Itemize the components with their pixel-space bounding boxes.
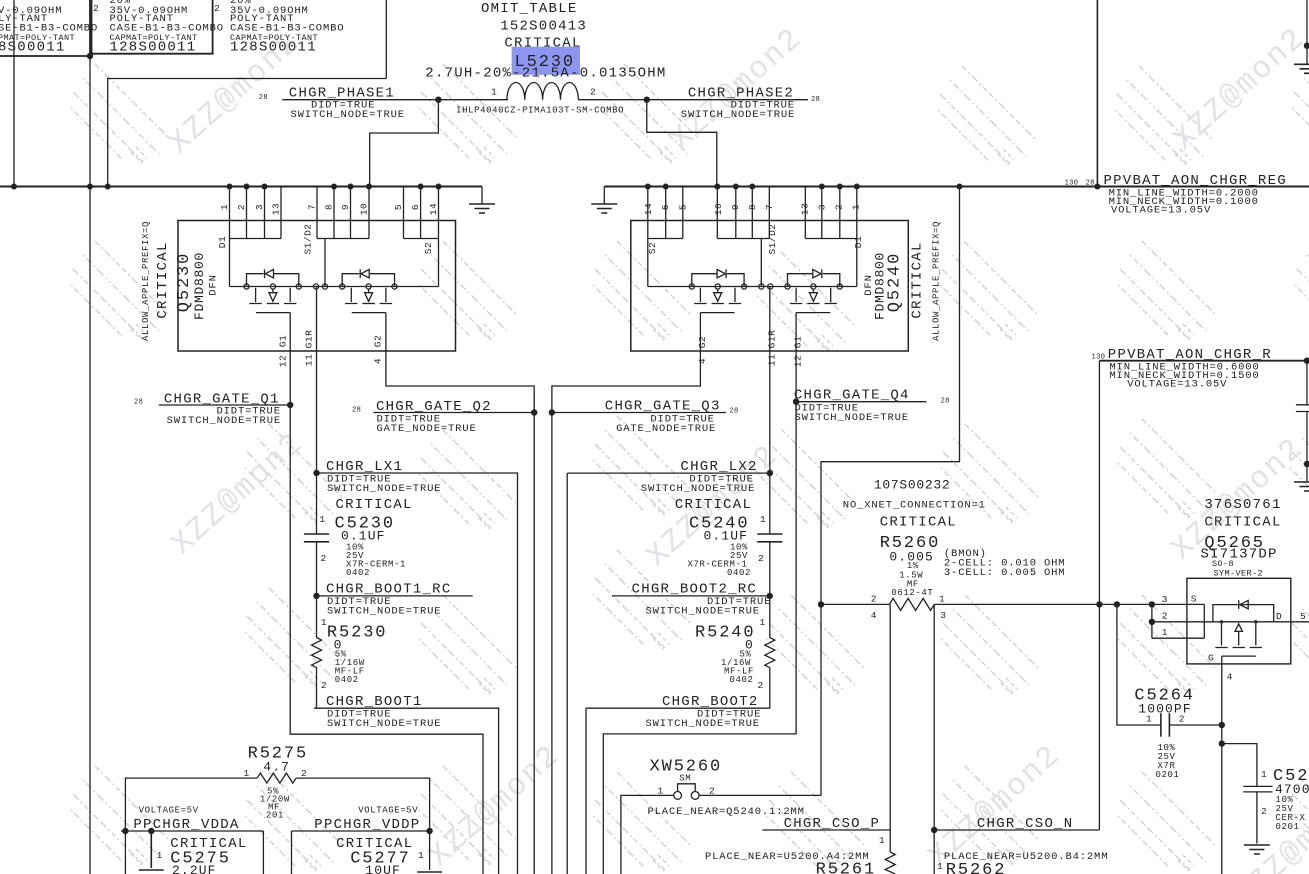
- svg-text:SYM-VER-2: SYM-VER-2: [1214, 569, 1264, 579]
- svg-text:13: 13: [271, 203, 282, 215]
- svg-text:1: 1: [658, 786, 664, 797]
- svg-text:3: 3: [1162, 594, 1168, 605]
- svg-text:8: 8: [747, 204, 758, 210]
- wire R5275 pin2 to PPCHGR_VDDP: [296, 778, 429, 870]
- svg-text:CHGR_BOOT1: CHGR_BOOT1: [326, 694, 423, 710]
- wire Q5265 drain: [1274, 621, 1309, 623]
- svg-text:S2: S2: [423, 242, 434, 254]
- svg-text:CRITICAL: CRITICAL: [675, 497, 752, 513]
- svg-text:1: 1: [1146, 714, 1152, 725]
- svg-text:28: 28: [729, 408, 738, 416]
- svg-text:0.1UF: 0.1UF: [704, 529, 749, 544]
- svg-text:2: 2: [1261, 806, 1267, 817]
- capacitor C5277: [417, 871, 442, 873]
- svg-text:0402: 0402: [335, 675, 359, 685]
- svg-text:28: 28: [352, 407, 361, 415]
- wire CHGR_GATE_Q4: [796, 401, 926, 403]
- wire CHGR_GATE_Q3: [552, 412, 726, 414]
- capacitor table box 3: [385, 0, 387, 79]
- wire PPCHGR_VDDP: [292, 830, 430, 832]
- svg-text:12: 12: [278, 355, 289, 367]
- wire CHGR_BOOT2_RC: [612, 595, 770, 597]
- svg-text:1: 1: [418, 850, 424, 861]
- svg-text:2.7UH-20%-21.5A-0.0135OHM: 2.7UH-20%-21.5A-0.0135OHM: [425, 66, 666, 82]
- inductor L5230: [507, 82, 578, 99]
- svg-text:PPCHGR_VDDA: PPCHGR_VDDA: [133, 817, 239, 833]
- ground G1: [481, 187, 483, 205]
- svg-text:VOLTAGE=13.05V: VOLTAGE=13.05V: [1111, 205, 1211, 217]
- wire CHGR_CSO_P: [762, 829, 890, 831]
- svg-text:7: 7: [307, 204, 318, 210]
- svg-text:0201: 0201: [1156, 770, 1180, 780]
- wire CHGR_PHASE2: [578, 99, 808, 101]
- capacitor C5265: [1222, 744, 1273, 844]
- wire kelvin tap CSO_N: [933, 604, 935, 874]
- wire G1R Q5240: [769, 351, 771, 596]
- wire bus to R5260 feed: [821, 187, 960, 796]
- wire CHGR_CSO_N: [934, 829, 1099, 831]
- wire G1R / CHGR_LX1 node: [316, 351, 318, 596]
- ground bars G2: [591, 204, 617, 213]
- svg-text:G1R: G1R: [304, 330, 315, 349]
- wire G2 Q5240 to CHGR_GATE_Q3: [552, 351, 701, 874]
- wire Q5265 S pins: [1152, 604, 1213, 638]
- svg-text:3: 3: [940, 610, 946, 621]
- svg-text:2: 2: [871, 594, 877, 605]
- svg-text:SWITCH_NODE=TRUE: SWITCH_NODE=TRUE: [646, 606, 760, 618]
- svg-text:GATE_NODE=TRUE: GATE_NODE=TRUE: [377, 423, 477, 435]
- svg-text:2: 2: [236, 204, 247, 210]
- capacitor C5240: [757, 534, 782, 542]
- svg-text:DFN: DFN: [208, 274, 220, 295]
- svg-text:ALLOW_APPLE_PREFIX=Q: ALLOW_APPLE_PREFIX=Q: [932, 221, 942, 341]
- svg-text:8S00011: 8S00011: [0, 40, 66, 56]
- svg-text:1: 1: [157, 850, 163, 861]
- svg-text:0.1UF: 0.1UF: [341, 529, 386, 544]
- svg-text:28: 28: [259, 94, 268, 102]
- svg-text:11: 11: [767, 354, 778, 366]
- svg-text:0612-4T: 0612-4T: [891, 588, 933, 598]
- svg-text:NO_XNET_CONNECTION=1: NO_XNET_CONNECTION=1: [843, 500, 986, 512]
- transistor Q5240: [631, 184, 909, 352]
- wire CHGR_BOOT2: [586, 708, 770, 874]
- svg-text:107S00232: 107S00232: [874, 478, 951, 493]
- svg-text:2: 2: [758, 553, 764, 564]
- svg-text:2: 2: [834, 204, 845, 210]
- wire from box3 bottom to bus: [108, 79, 387, 187]
- ground G2: [603, 187, 605, 205]
- box edge C5275 right: [262, 831, 264, 874]
- wire R5260 out: [934, 603, 1204, 605]
- svg-text:1: 1: [1162, 627, 1168, 638]
- wire G1 Q5240 to CHGR_GATE_Q4: [603, 351, 796, 874]
- svg-text:130: 130: [1065, 179, 1079, 187]
- wire cap pin left: [13, 0, 15, 187]
- svg-text:S1/D2: S1/D2: [767, 223, 778, 254]
- svg-text:12: 12: [793, 355, 804, 367]
- wire PPCHGR_VDDA: [121, 830, 263, 832]
- svg-text:14: 14: [643, 203, 654, 215]
- svg-text:7: 7: [764, 204, 775, 210]
- capacitor C5275: [139, 831, 164, 870]
- svg-text:1: 1: [320, 514, 326, 525]
- highlight L5230: [512, 47, 580, 75]
- svg-text:FDMD8800: FDMD8800: [192, 252, 207, 320]
- svg-text:28: 28: [811, 96, 820, 104]
- svg-text:CRITICAL: CRITICAL: [336, 497, 413, 513]
- svg-text:10: 10: [359, 203, 370, 215]
- svg-text:S2: S2: [647, 242, 658, 254]
- svg-text:D: D: [1276, 611, 1282, 622]
- svg-text:PLACE_NEAR=Q5240.1:2MM: PLACE_NEAR=Q5240.1:2MM: [648, 806, 805, 818]
- svg-text:OMIT_TABLE: OMIT_TABLE: [481, 1, 578, 17]
- box edge C5277 left: [291, 831, 293, 874]
- capacitor C5230: [304, 534, 329, 542]
- Q5240 text: [643, 203, 942, 367]
- svg-text:9: 9: [340, 204, 351, 210]
- svg-text:10: 10: [713, 203, 724, 215]
- svg-text:CHGR_GATE_Q2: CHGR_GATE_Q2: [376, 399, 492, 415]
- svg-text:D1: D1: [853, 236, 864, 248]
- svg-text:1: 1: [244, 768, 250, 779]
- svg-text:0402: 0402: [727, 568, 751, 578]
- resistor R5230: [312, 596, 322, 708]
- junction dots mid section: [11, 43, 1309, 600]
- svg-text:4: 4: [373, 358, 384, 364]
- svg-text:SWITCH_NODE=TRUE: SWITCH_NODE=TRUE: [681, 109, 795, 121]
- svg-text:3: 3: [817, 204, 828, 210]
- svg-text:10UF: 10UF: [365, 863, 401, 874]
- svg-text:2: 2: [93, 3, 99, 14]
- wire CHGR_GATE_Q2: [373, 412, 534, 414]
- ground bars C5265: [1244, 845, 1270, 854]
- resistor R5240: [765, 596, 775, 708]
- wire CHGR_PHASE1: [282, 99, 508, 101]
- capacitor table box 2: [92, 0, 213, 54]
- wire CHGR_BOOT1_RC: [314, 595, 473, 597]
- svg-text:0402: 0402: [730, 675, 754, 685]
- svg-text:CRITICAL: CRITICAL: [155, 241, 171, 318]
- junction dots bottom: [122, 601, 1257, 834]
- svg-text:VOLTAGE=5V: VOLTAGE=5V: [358, 805, 418, 815]
- svg-text:PPCHGR_VDDP: PPCHGR_VDDP: [314, 817, 420, 833]
- capacitor right edge top: [1296, 361, 1309, 482]
- capacitor table box 1: [0, 0, 90, 56]
- svg-text:G1: G1: [278, 335, 289, 347]
- resistor R5260: [889, 598, 934, 610]
- svg-text:14: 14: [428, 203, 439, 215]
- svg-text:S1/D2: S1/D2: [303, 223, 314, 254]
- resistor R5275: [257, 773, 296, 783]
- svg-text:G1R: G1R: [767, 330, 778, 349]
- capacitor C5264: [1161, 713, 1170, 736]
- svg-text:Q5240: Q5240: [886, 252, 905, 313]
- wire CHGR_PHASE1 drop to Q5230: [370, 100, 439, 187]
- svg-text:5: 5: [1300, 611, 1306, 622]
- wire C5264 to gate: [1169, 724, 1221, 726]
- svg-text:CHGR_CSO_P: CHGR_CSO_P: [784, 816, 881, 832]
- svg-text:SWITCH_NODE=TRUE: SWITCH_NODE=TRUE: [167, 415, 281, 427]
- power bus PPVBAT left segment: [0, 186, 482, 188]
- svg-text:1: 1: [491, 87, 497, 98]
- svg-text:4.7: 4.7: [263, 760, 290, 775]
- svg-text:G: G: [1208, 653, 1214, 664]
- svg-text:2: 2: [590, 87, 596, 98]
- svg-text:28: 28: [134, 399, 143, 407]
- svg-text:0402: 0402: [346, 568, 370, 578]
- svg-text:CHGR_GATE_Q3: CHGR_GATE_Q3: [605, 399, 721, 415]
- wire CHGR_LX2: [567, 473, 770, 874]
- svg-text:28: 28: [941, 398, 950, 406]
- svg-text:152S00413: 152S00413: [500, 19, 587, 35]
- svg-text:SWITCH_NODE=TRUE: SWITCH_NODE=TRUE: [327, 606, 441, 618]
- wire CHGR_PHASE2 drop to Q5240: [647, 100, 717, 187]
- wire R5260 sense: [821, 603, 889, 605]
- svg-text:2: 2: [1162, 611, 1168, 622]
- svg-text:SO-8: SO-8: [1212, 559, 1234, 569]
- svg-text:5: 5: [393, 204, 404, 210]
- svg-text:1: 1: [879, 835, 885, 846]
- resistor R5261: [885, 852, 895, 874]
- transistor Q5265: [1187, 578, 1291, 664]
- svg-text:CHGR_BOOT2: CHGR_BOOT2: [662, 694, 759, 710]
- svg-text:28: 28: [1086, 179, 1095, 187]
- svg-text:D1: D1: [217, 236, 228, 248]
- svg-text:130: 130: [1092, 354, 1106, 362]
- svg-text:4: 4: [697, 358, 708, 364]
- svg-text:5: 5: [678, 204, 689, 210]
- svg-text:4: 4: [1227, 672, 1233, 683]
- wire PPVBAT_AON_CHGR_R: [1099, 360, 1307, 362]
- jumper XW5260: [678, 784, 696, 792]
- svg-text:9: 9: [730, 204, 741, 210]
- svg-text:1: 1: [760, 514, 766, 525]
- wire Q5265 gate: [1221, 656, 1223, 874]
- svg-text:SWITCH_NODE=TRUE: SWITCH_NODE=TRUE: [291, 109, 405, 121]
- wire C5264 branch: [1117, 604, 1161, 725]
- wire kelvin tap CSO_P: [889, 604, 891, 852]
- svg-text:G2: G2: [697, 336, 708, 348]
- wire PPVBAT top right drop: [1096, 0, 1098, 187]
- wire R5275 pin1 to PPCHGR_VDDA: [125, 778, 257, 874]
- wire sense node riser: [1098, 361, 1100, 830]
- svg-text:CHGR_GATE_Q4: CHGR_GATE_Q4: [794, 388, 910, 404]
- svg-text:2: 2: [1179, 714, 1185, 725]
- svg-text:1: 1: [1261, 769, 1267, 780]
- svg-text:6: 6: [660, 204, 671, 210]
- svg-text:SWITCH_NODE=TRUE: SWITCH_NODE=TRUE: [646, 718, 760, 730]
- svg-text:2: 2: [214, 3, 220, 14]
- svg-text:0201: 0201: [1276, 822, 1300, 832]
- svg-text:SWITCH_NODE=TRUE: SWITCH_NODE=TRUE: [641, 483, 755, 495]
- svg-text:11: 11: [304, 354, 315, 366]
- svg-text:R5262: R5262: [946, 861, 1007, 874]
- svg-text:2: 2: [709, 786, 715, 797]
- svg-text:SWITCH_NODE=TRUE: SWITCH_NODE=TRUE: [327, 718, 441, 730]
- svg-text:VOLTAGE=13.05V: VOLTAGE=13.05V: [1127, 379, 1227, 391]
- svg-text:8: 8: [324, 204, 335, 210]
- svg-text:128S00011: 128S00011: [110, 40, 197, 56]
- svg-text:2: 2: [321, 680, 327, 691]
- wire cap pin box2: [89, 56, 91, 874]
- wire CHGR_GATE_Q1: [159, 404, 290, 406]
- wire CHGR_LX1: [317, 473, 518, 874]
- svg-text:1: 1: [760, 617, 766, 628]
- Q5230 text: [141, 203, 439, 367]
- power bus PPVBAT right segment: [604, 186, 1309, 188]
- svg-text:G2: G2: [373, 335, 384, 347]
- ground bars G1: [469, 204, 495, 213]
- svg-text:376S0761: 376S0761: [1204, 497, 1281, 513]
- svg-text:G1: G1: [793, 336, 804, 348]
- svg-text:201: 201: [266, 811, 284, 821]
- wire right edge to ground top: [1306, 0, 1308, 64]
- svg-text:1: 1: [851, 204, 862, 210]
- svg-text:2.2UF: 2.2UF: [172, 863, 217, 874]
- svg-text:VOLTAGE=5V: VOLTAGE=5V: [139, 805, 199, 815]
- svg-text:4: 4: [871, 610, 877, 621]
- svg-text:CRITICAL: CRITICAL: [910, 241, 926, 318]
- svg-text:2: 2: [321, 553, 327, 564]
- wire XW5260 pin2: [699, 794, 821, 796]
- svg-text:GATE_NODE=TRUE: GATE_NODE=TRUE: [616, 423, 716, 435]
- svg-text:ALLOW_APPLE_PREFIX=Q: ALLOW_APPLE_PREFIX=Q: [141, 221, 151, 341]
- ground bars top right: [1294, 64, 1309, 73]
- svg-text:CRITICAL: CRITICAL: [880, 514, 957, 530]
- svg-text:SWITCH_NODE=TRUE: SWITCH_NODE=TRUE: [795, 412, 909, 424]
- svg-text:SM: SM: [679, 774, 691, 784]
- svg-text:CHGR_CSO_N: CHGR_CSO_N: [977, 816, 1074, 832]
- svg-text:3-CELL: 0.005 OHM: 3-CELL: 0.005 OHM: [944, 567, 1066, 579]
- svg-text:1: 1: [937, 861, 943, 872]
- transistor Q5230: [178, 184, 456, 352]
- wire G1 to CHGR_GATE_Q1 and down: [290, 351, 483, 874]
- svg-text:2: 2: [758, 680, 764, 691]
- svg-text:S: S: [1191, 594, 1197, 605]
- wire XW5260 pin1: [621, 795, 674, 874]
- svg-text:R5261: R5261: [816, 861, 877, 874]
- svg-text:128S00011: 128S00011: [230, 40, 317, 56]
- ground bars right mid: [1294, 482, 1309, 491]
- svg-text:3: 3: [254, 204, 265, 210]
- svg-text:13: 13: [800, 203, 811, 215]
- svg-text:2: 2: [301, 768, 307, 779]
- wire G2 to CHGR_GATE_Q2: [386, 351, 534, 874]
- svg-text:CRITICAL: CRITICAL: [504, 36, 581, 52]
- svg-text:1: 1: [939, 594, 945, 605]
- svg-text:IHLP4040CZ-PIMA103T-SM-COMBO: IHLP4040CZ-PIMA103T-SM-COMBO: [456, 106, 624, 116]
- svg-text:6: 6: [410, 204, 421, 210]
- svg-text:1: 1: [219, 204, 230, 210]
- svg-text:1%: 1%: [907, 561, 919, 571]
- svg-text:PPVBAT_AON_CHGR_R: PPVBAT_AON_CHGR_R: [1108, 347, 1272, 363]
- svg-text:SWITCH_NODE=TRUE: SWITCH_NODE=TRUE: [327, 483, 441, 495]
- svg-text:PPVBAT_AON_CHGR_REG: PPVBAT_AON_CHGR_REG: [1104, 173, 1287, 189]
- wire CHGR_BOOT1: [314, 708, 499, 874]
- svg-text:CRITICAL: CRITICAL: [1204, 515, 1281, 531]
